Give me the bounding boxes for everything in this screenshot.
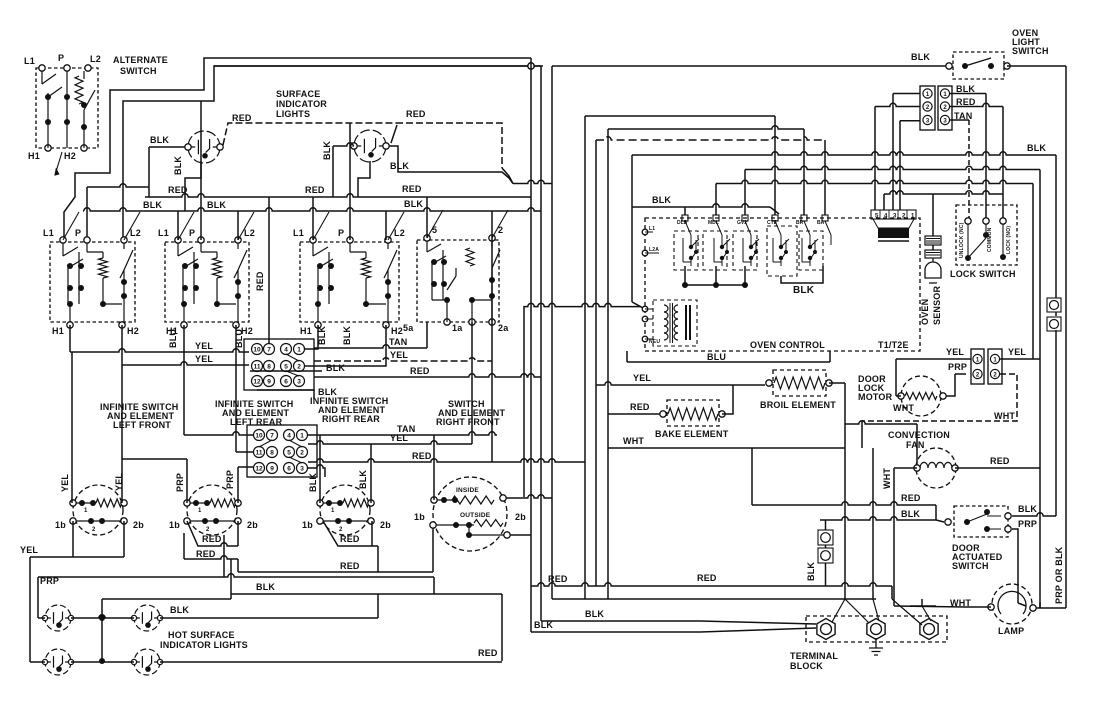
svg-text:PRP: PRP	[175, 473, 185, 492]
switch right front box	[417, 240, 499, 322]
svg-text:L2: L2	[130, 228, 141, 238]
svg-text:2b: 2b	[247, 520, 258, 530]
wire BLK top bus to oven light switch	[552, 65, 949, 67]
wire H2 right rear to block1	[305, 325, 386, 366]
svg-text:L1: L1	[43, 228, 54, 238]
wire v378a	[377, 546, 379, 572]
ground symbol	[869, 638, 883, 655]
wire P feed top	[87, 184, 149, 187]
wire TAN row right	[950, 119, 969, 121]
wire v502 to RED lamp wire	[501, 594, 503, 661]
switch left front box	[50, 242, 135, 322]
svg-text:YEL: YEL	[195, 354, 213, 364]
svg-text:1b: 1b	[169, 520, 180, 530]
svg-text:COMMON: COMMON	[987, 227, 993, 252]
bake element box	[667, 400, 719, 426]
svg-text:BLK: BLK	[256, 582, 275, 592]
resistor INSIDE	[452, 496, 494, 504]
strip pin 3	[923, 115, 932, 124]
wire PRP into lamp right	[1018, 603, 1026, 606]
svg-text:BLK: BLK	[143, 200, 162, 210]
svg-text:2: 2	[92, 527, 96, 533]
door lock motor circle	[901, 376, 941, 416]
svg-text:RED: RED	[412, 451, 432, 461]
svg-text:BROIL ELEMENT: BROIL ELEMENT	[760, 400, 836, 410]
switch left front actuator diagonals	[63, 212, 140, 240]
wire into light 2	[333, 143, 354, 146]
strip pin 1	[923, 89, 932, 98]
connector block 1 pin 10	[252, 344, 263, 355]
wire relay2 bottom	[715, 266, 717, 285]
strip2 pin 1	[990, 354, 999, 363]
wire left rear TR to block2	[238, 466, 253, 468]
fuse square right	[1047, 317, 1061, 331]
wire 1b left rear diagonal RED	[187, 521, 238, 546]
svg-text:2b: 2b	[380, 520, 391, 530]
wire vertical bus x552	[551, 66, 553, 599]
switch right front middle row	[433, 524, 474, 526]
resistor	[362, 258, 371, 278]
fuse square right	[1047, 298, 1061, 312]
switch left rear actuator diagonals	[178, 212, 254, 240]
wire into motor	[896, 395, 901, 397]
svg-text:P: P	[189, 228, 195, 238]
wire RED from block1 row3	[314, 374, 541, 377]
wire vertical x596	[595, 140, 597, 586]
connector block 2 pin 4	[284, 430, 295, 441]
svg-text:SWITCH: SWITCH	[1012, 46, 1049, 56]
resistor	[99, 258, 108, 278]
connector block 2 pin 9	[267, 463, 278, 474]
wire 2b left front down	[123, 521, 125, 557]
alternate switch box	[36, 68, 98, 148]
wire PRP to motor	[946, 374, 955, 396]
convection fan coil	[920, 462, 952, 468]
oven control connector 5 4 3 2 1	[871, 210, 916, 219]
oven control box	[645, 218, 920, 351]
switch right rear box	[300, 242, 399, 322]
wire RED down to block1 pin7	[268, 197, 270, 343]
svg-text:RED: RED	[901, 493, 921, 503]
svg-text:BLK: BLK	[170, 605, 189, 615]
switch left rear terminals	[175, 237, 181, 243]
connector block 1 pin 4	[281, 344, 292, 355]
connector block 2 pin 2	[297, 447, 308, 458]
svg-text:RED: RED	[956, 97, 976, 107]
svg-text:H2: H2	[64, 151, 76, 161]
wire relay4-5 bottom loop	[781, 266, 823, 283]
wire between fuses	[1055, 312, 1057, 316]
wire RED from lamp D	[160, 661, 502, 663]
lock switch box	[956, 205, 1017, 265]
transformer core	[670, 303, 673, 343]
svg-text:1: 1	[976, 358, 980, 364]
wire PRP left rear TL	[186, 459, 188, 503]
wire relay3 bottom	[744, 266, 746, 285]
svg-text:OUTSIDE: OUTSIDE	[460, 512, 491, 519]
wire into block2 row2	[235, 365, 237, 452]
connector block1 internal links	[286, 354, 299, 376]
svg-text:BAKE ELEMENT: BAKE ELEMENT	[655, 429, 729, 439]
wire light2 left down to RED bus	[332, 146, 334, 197]
svg-text:RED: RED	[340, 534, 360, 544]
wire diag BLK to CTE pin	[770, 207, 779, 214]
connector block 1	[244, 339, 314, 390]
relay MDL box	[703, 231, 727, 270]
wire vertical x1066 right edge	[1065, 66, 1067, 608]
svg-text:BLK: BLK	[150, 135, 169, 145]
svg-text:1b: 1b	[55, 520, 66, 530]
wire vertical bus x531	[530, 58, 532, 632]
svg-text:7: 7	[270, 433, 274, 440]
svg-text:4: 4	[284, 347, 288, 354]
connector block2 internal links	[259, 440, 302, 463]
wire 1b left front down	[72, 521, 74, 557]
switch right front element dashed circle	[433, 477, 507, 551]
wire lamp right to x1066	[1036, 607, 1066, 609]
wire RED second	[184, 556, 238, 559]
svg-text:H2: H2	[127, 326, 139, 336]
svg-text:BLOCK: BLOCK	[790, 661, 823, 671]
svg-text:P: P	[58, 53, 64, 63]
bake element resistor	[668, 408, 718, 420]
svg-text:WHT: WHT	[882, 468, 892, 489]
svg-text:BLK: BLK	[207, 200, 226, 210]
switch left front terminals	[60, 237, 66, 243]
svg-text:OVEN CONTROL: OVEN CONTROL	[750, 340, 825, 350]
wire RED from light 1	[223, 123, 396, 145]
wire into block2 row1 h	[184, 432, 253, 435]
svg-text:YEL: YEL	[633, 373, 651, 383]
wire v936	[935, 505, 937, 520]
svg-text:RED: RED	[196, 549, 216, 559]
svg-text:3: 3	[300, 466, 304, 473]
relay pin BA	[822, 215, 828, 221]
svg-text:3: 3	[943, 118, 947, 124]
svg-text:L2A: L2A	[649, 247, 659, 253]
svg-text:YEL: YEL	[60, 474, 70, 492]
svg-text:BLK: BLK	[652, 195, 671, 205]
wire v231	[230, 559, 232, 594]
wire BLU right corner	[829, 351, 831, 362]
relay pin GV2	[742, 215, 748, 221]
connector block 1 pin 3	[294, 376, 305, 387]
alternate switch terminals L1 P L2 H1 H2	[39, 65, 45, 71]
wire WHT bottom	[608, 447, 845, 449]
svg-text:RED: RED	[340, 561, 360, 571]
wire x1040 end	[1039, 602, 1041, 608]
svg-text:YEL: YEL	[1008, 347, 1026, 357]
fuse square middle	[818, 530, 833, 545]
wire pin BA feed	[824, 140, 826, 215]
wire v917 to fan	[916, 424, 918, 468]
wire BLK door	[820, 517, 936, 520]
wire left rear inner down	[183, 533, 185, 559]
strip2 pin 1	[973, 354, 982, 363]
wire lamp C to D	[71, 661, 134, 663]
svg-text:8: 8	[270, 450, 274, 457]
wire YEL to block1	[70, 349, 249, 352]
strip2 pin 2	[973, 369, 982, 378]
svg-text:BR: BR	[796, 220, 804, 226]
wire into block2 row2 h	[236, 451, 253, 453]
wire YEL right	[1000, 358, 1040, 360]
wire RED tap light 2	[391, 125, 397, 143]
wire right front 1b down	[432, 528, 434, 572]
svg-text:5a: 5a	[403, 323, 414, 333]
oven control terminal bottom2	[642, 316, 648, 322]
connector block 1 pin 11	[252, 361, 263, 372]
svg-text:BLK: BLK	[390, 161, 409, 171]
switch right rear contacts	[313, 243, 397, 322]
svg-text:BLK: BLK	[322, 141, 332, 160]
svg-text:RED: RED	[406, 109, 426, 119]
svg-text:MOTOR: MOTOR	[858, 392, 893, 402]
svg-text:1b: 1b	[302, 520, 313, 530]
svg-text:BLK: BLK	[342, 326, 352, 345]
wire RED dash to middle	[396, 123, 502, 168]
svg-text:2: 2	[297, 364, 301, 371]
svg-text:WHT: WHT	[994, 411, 1015, 421]
svg-text:P: P	[75, 228, 81, 238]
svg-text:BLK: BLK	[806, 562, 816, 581]
terminal block feed diagonals	[832, 599, 931, 625]
infinite switch left rear resistor	[210, 499, 236, 507]
wire vertical x608	[607, 129, 609, 599]
infinite switch left front top row contacts and resistor	[73, 502, 96, 504]
wire bus y183.5 right segment	[716, 180, 1033, 183]
terminal strip YEL/PRP right	[988, 349, 1002, 384]
svg-text:12: 12	[253, 379, 261, 386]
wire into block2 row1	[183, 352, 185, 435]
connector block 2 pin 10	[254, 430, 265, 441]
svg-text:BLK: BLK	[404, 199, 423, 209]
connector block 1 pin 7	[264, 344, 275, 355]
wire fan left stub	[894, 467, 917, 469]
connector block 2 pin 1	[297, 430, 308, 441]
hot surface indicator light A	[45, 605, 71, 631]
svg-text:5: 5	[284, 364, 288, 371]
wire 2 vertical through box	[491, 238, 493, 462]
wire BLK row right	[950, 93, 986, 95]
wire L1 right rear feed	[312, 197, 314, 240]
terminal block lug 2	[867, 619, 885, 640]
svg-text:BLK: BLK	[308, 473, 318, 492]
broil element box	[773, 370, 826, 396]
wire fuse to bus	[825, 563, 827, 586]
wire pin BR feed	[803, 129, 805, 215]
wire YEL from block2	[308, 441, 472, 444]
svg-text:H1: H1	[52, 326, 64, 336]
svg-text:2: 2	[993, 373, 997, 379]
wire WHT stub near block	[910, 605, 936, 607]
wire staircase B to L2 left front switch	[123, 66, 541, 240]
svg-text:RED: RED	[990, 456, 1010, 466]
svg-text:L2: L2	[90, 54, 101, 64]
svg-text:11: 11	[254, 364, 261, 371]
wire into lamp A	[38, 617, 45, 619]
switch left rear box	[165, 242, 249, 322]
wire v378b	[377, 594, 379, 618]
wire v892 stub	[891, 586, 893, 599]
infinite switch left rear terminals	[184, 500, 190, 506]
connector block 1 pin 5	[281, 361, 292, 372]
svg-text:2: 2	[300, 450, 304, 457]
resistor OUTSIDE	[474, 520, 503, 527]
wire YEL left front TR	[121, 365, 123, 503]
connector strip left	[920, 86, 935, 130]
svg-text:L1: L1	[24, 56, 35, 66]
infinite switch left front dashed circle	[73, 485, 123, 535]
relay pin DLB	[682, 215, 688, 221]
transformer coils	[664, 305, 668, 312]
wire bus y599	[552, 598, 876, 600]
svg-text:PRP: PRP	[948, 362, 967, 372]
wire v875 down to oven connector	[874, 107, 876, 211]
switch right front inside resistor	[434, 499, 452, 501]
transformer hatch right	[686, 305, 690, 340]
wire strip row3 left	[900, 120, 920, 122]
wire fuse feed	[825, 520, 827, 530]
wire fuse down to door switch	[1055, 330, 1057, 516]
connector block 1 pin 2	[294, 361, 305, 372]
wire v752	[751, 448, 753, 505]
resistor	[466, 248, 474, 266]
infinite switch right rear terminals	[317, 500, 323, 506]
wire BLU corner	[626, 351, 628, 362]
connector block 2 pin 7	[267, 430, 278, 441]
strip pin 2	[923, 102, 932, 111]
wire relay bottoms	[685, 266, 745, 285]
switch right front contacts	[427, 241, 500, 322]
door lock motor resistor	[905, 393, 937, 400]
wire stub	[372, 545, 378, 547]
wire BLK bus y211	[84, 208, 541, 211]
wire corner down	[237, 559, 239, 572]
wire TAN from block2	[308, 432, 497, 435]
wire pin CTE feed	[774, 116, 776, 215]
svg-text:1: 1	[297, 347, 301, 354]
svg-text:10: 10	[253, 347, 261, 354]
wire bus y169	[745, 166, 1040, 169]
oven control terminal bottom1	[642, 306, 648, 312]
fuse square middle	[818, 548, 833, 563]
svg-text:OVEN: OVEN	[920, 299, 930, 325]
connector strip right	[938, 86, 952, 130]
resistor	[75, 76, 83, 104]
wire WHT loop	[862, 374, 1017, 421]
svg-text:LOCK SWITCH: LOCK SWITCH	[950, 269, 1016, 279]
connector block 2 pin 12	[254, 463, 265, 474]
connector block 1 pin 9	[264, 376, 275, 387]
wire YEL dash from block1	[314, 358, 492, 361]
svg-text:SWITCH: SWITCH	[120, 66, 157, 76]
svg-text:BLK: BLK	[358, 470, 368, 489]
wire WHT to lamp	[966, 606, 991, 608]
svg-text:4: 4	[287, 433, 291, 440]
wire 2b left rear down	[237, 521, 239, 546]
oven control terminal L1	[642, 229, 648, 235]
wire BLU	[627, 361, 830, 363]
svg-text:RIGHT FRONT: RIGHT FRONT	[436, 417, 500, 427]
svg-text:BLK: BLK	[317, 326, 327, 345]
wire v900 down to oven connector	[899, 121, 901, 210]
svg-text:2: 2	[926, 105, 930, 111]
svg-text:L2: L2	[394, 228, 405, 238]
wire stub v231b	[230, 594, 232, 599]
svg-text:1: 1	[926, 92, 930, 98]
svg-text:CONVECTION: CONVECTION	[888, 430, 950, 440]
svg-text:WHT: WHT	[893, 403, 914, 413]
svg-text:RED: RED	[255, 271, 265, 291]
wire BLK door switch right	[1012, 513, 1056, 516]
wire into lamp C	[30, 661, 45, 663]
oven sensor connector blocks	[925, 236, 941, 245]
wire BLK from lamp B	[160, 617, 378, 619]
svg-text:LOCK (NO): LOCK (NO)	[1006, 226, 1012, 254]
svg-text:NEU: NEU	[649, 339, 660, 345]
wire BLK block1 bottom	[257, 390, 314, 398]
wire right front TR to x552	[506, 495, 552, 498]
door actuated switch contacts	[964, 519, 970, 525]
surface indicator light 2	[354, 130, 386, 162]
svg-text:BLK: BLK	[173, 156, 183, 175]
wire v1003 to lock switch	[1002, 107, 1004, 222]
svg-text:9: 9	[270, 466, 274, 473]
svg-text:11: 11	[256, 450, 263, 457]
wire v969 to lock switch	[968, 120, 970, 221]
wire v845	[844, 383, 846, 599]
wire RED from block2	[308, 459, 585, 462]
svg-text:1: 1	[300, 433, 304, 440]
connector block 1 pin 12	[252, 376, 263, 387]
wire oven light switch right	[1007, 65, 1066, 67]
oven sensor bulb	[925, 258, 941, 283]
lock switch contacts	[965, 255, 971, 261]
svg-text:TAN: TAN	[389, 337, 407, 347]
wire BLK top bus left	[214, 63, 543, 66]
relay pin CTE	[772, 215, 778, 221]
svg-text:6: 6	[287, 466, 291, 473]
wire light 2 bottom down	[358, 161, 370, 197]
terminal block lug 1	[817, 619, 835, 640]
wire BLK to terminal block 1	[531, 628, 816, 632]
wire YEL to broil	[596, 382, 765, 385]
svg-text:INDICATOR LIGHTS: INDICATOR LIGHTS	[160, 640, 248, 650]
svg-text:BA: BA	[817, 220, 825, 226]
relay BR box	[799, 231, 823, 270]
connector block 1 pin 1	[294, 344, 305, 355]
svg-text:5: 5	[287, 450, 291, 457]
svg-text:1: 1	[198, 508, 202, 514]
wire BLK light 2 right to middle bus	[389, 146, 513, 184]
wire 5 feed	[426, 197, 428, 238]
svg-text:SURFACE: SURFACE	[276, 89, 320, 99]
svg-text:PRP: PRP	[1018, 519, 1037, 529]
switch right front bottom row	[469, 525, 507, 535]
wire block2 bottom stub	[308, 465, 325, 477]
wire WHT fan down	[893, 468, 895, 606]
switch left front contacts	[63, 243, 133, 322]
svg-text:INDICATOR: INDICATOR	[276, 99, 327, 109]
connector block 1 pin 6	[281, 376, 292, 387]
svg-text:2: 2	[943, 105, 947, 111]
connector block 2 pin 6	[284, 463, 295, 474]
wire WHT lamp left	[894, 606, 966, 607]
svg-text:BLK: BLK	[326, 363, 345, 373]
svg-text:PRP: PRP	[225, 470, 235, 489]
relay pin MDL	[713, 215, 719, 221]
